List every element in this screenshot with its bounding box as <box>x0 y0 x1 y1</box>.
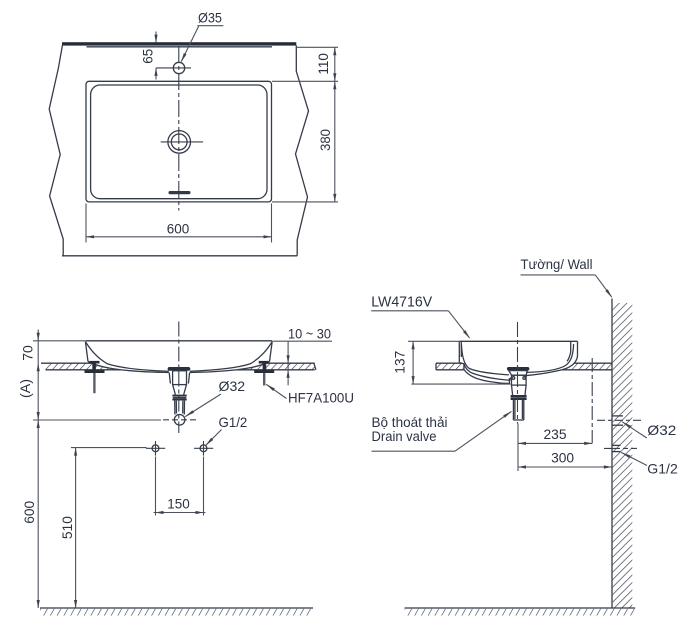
svg-text:Drain valve: Drain valve <box>372 428 437 444</box>
counter bottom line <box>46 369 315 371</box>
basin back rim line <box>87 46 273 48</box>
counter bottom edge <box>62 255 297 257</box>
counter hatch band <box>46 363 315 370</box>
basin right lower sweep curve <box>190 362 270 373</box>
svg-text:G1/2: G1/2 <box>219 414 248 430</box>
faucet hole horizontal centerline <box>156 67 191 69</box>
label Ø35 with leader <box>180 9 224 63</box>
dimension 300 <box>518 450 612 469</box>
dimension 150 <box>154 457 206 516</box>
label G1/2 (wall) with leader <box>621 451 678 476</box>
label Tuong/Wall with leader <box>521 256 614 299</box>
right overflow slot line (side) <box>567 342 571 361</box>
svg-text:137: 137 <box>392 350 408 373</box>
drain taper (side) <box>512 385 527 395</box>
dimension 600 (plan) <box>86 204 272 243</box>
counter left end cap (side) <box>435 363 437 370</box>
basin left upper sweep curve <box>86 342 169 371</box>
label HF7A100U with leader <box>265 383 354 405</box>
basin left end wall <box>85 342 88 362</box>
svg-text:65: 65 <box>140 49 156 64</box>
svg-text:510: 510 <box>59 516 75 539</box>
left fixing bolt pads <box>90 361 100 364</box>
drain cap (front) <box>168 367 191 371</box>
vertical centerline <box>178 46 180 211</box>
dimension 510 <box>59 448 147 608</box>
dimension 600 arrows (front) <box>37 420 40 428</box>
side vertical centerline <box>517 322 519 424</box>
ext line drain level <box>33 419 161 421</box>
drain flange (side) <box>509 371 528 376</box>
wall outlet G1/2 centerline <box>604 447 637 449</box>
extension line basin bottom right <box>272 201 338 203</box>
svg-text:(A): (A) <box>17 379 33 398</box>
label LW4716V with leader <box>371 295 471 340</box>
svg-text:Tường/ Wall: Tường/ Wall <box>521 256 593 272</box>
svg-text:G1/2: G1/2 <box>647 461 678 477</box>
floor hatch (left view) <box>40 609 313 616</box>
floor line (left view) <box>40 607 313 609</box>
drain tailpipe (front) <box>175 401 185 415</box>
counter right corner edge <box>296 45 309 255</box>
counter left break edge <box>49 45 63 255</box>
svg-text:Ø32: Ø32 <box>647 422 676 438</box>
drain nut threads (front) <box>172 395 186 397</box>
drain pipe end circle Ø32 <box>174 415 185 426</box>
drain horizontal centerline <box>161 141 203 143</box>
wall face line <box>611 299 613 609</box>
basin rim line <box>85 340 272 342</box>
svg-text:Ø35: Ø35 <box>198 9 222 25</box>
right interior bowl curve (side) <box>526 344 573 372</box>
counter top line (side) <box>436 362 612 364</box>
svg-text:380: 380 <box>317 129 333 151</box>
wall hatch <box>613 303 633 608</box>
drain inner circle <box>171 134 187 150</box>
counter bottom line (side) <box>436 369 612 371</box>
floor line (side view) <box>405 607 636 609</box>
drain body (front) <box>173 371 187 385</box>
right supply circle <box>194 441 213 456</box>
left inner wall (side) <box>460 342 462 357</box>
counter right end cap <box>314 363 316 370</box>
svg-text:Ø32: Ø32 <box>219 378 246 394</box>
drain body hooks <box>169 373 170 384</box>
basin body mask (side) <box>459 341 579 386</box>
dimension 65 <box>140 32 158 80</box>
left interior bowl curve (side) <box>461 344 509 375</box>
right outer wall (side) <box>525 341 578 377</box>
wall outlet G1/2 hole <box>612 444 621 446</box>
label Ø32 (front) with leader <box>184 378 245 418</box>
label Bo thoat thai / Drain valve with leader <box>372 410 513 451</box>
svg-text:600: 600 <box>167 221 190 237</box>
basin inner rounded rectangle <box>91 85 267 199</box>
drain nut band (side) <box>511 395 527 397</box>
dimension 10 ~ 30 <box>273 326 332 386</box>
extension line top right <box>296 46 338 48</box>
left underside curve (side) <box>464 369 510 383</box>
svg-text:70: 70 <box>20 345 36 361</box>
left dimension stack line <box>37 330 39 609</box>
label G1/2 (front) with leader <box>204 414 247 447</box>
counter front edge (thick) <box>62 42 296 45</box>
left supply circle <box>146 441 165 456</box>
drain body (side) <box>512 375 527 385</box>
ext line rim level <box>33 340 85 342</box>
counter top line <box>41 362 315 364</box>
pipe end horizontal dashes <box>163 419 197 421</box>
counter hatch band (side) <box>436 363 612 370</box>
faucet hole circle Ø35 <box>173 62 184 73</box>
floor hatch (side view) <box>405 609 636 616</box>
basin rim line (side) <box>459 340 577 342</box>
front vertical centerline <box>178 322 180 434</box>
svg-text:150: 150 <box>167 495 190 511</box>
dimension 380 <box>317 81 336 202</box>
left foot edge (side) <box>460 363 464 370</box>
dimension (A) arrows <box>37 412 40 420</box>
basin right upper sweep curve <box>190 342 272 371</box>
dimension 110 <box>315 47 336 81</box>
dimension 137 <box>392 341 511 384</box>
svg-text:HF7A100U: HF7A100U <box>288 390 354 406</box>
svg-text:10 ~ 30: 10 ~ 30 <box>288 326 331 342</box>
drain tailpipe (side) <box>513 400 523 420</box>
svg-text:235: 235 <box>544 426 567 442</box>
basin right end wall <box>270 342 273 362</box>
right bolt rod HF7A100U <box>263 373 265 386</box>
drain center extension line <box>517 424 519 472</box>
drain outer circle <box>168 131 191 154</box>
extension line basin top right <box>272 80 338 82</box>
svg-text:600: 600 <box>21 501 37 524</box>
svg-text:LW4716V: LW4716V <box>371 295 432 311</box>
left shell middle curve (side) <box>464 364 511 381</box>
basin outer rectangle <box>86 81 272 202</box>
right fixing bolt pads <box>259 361 269 364</box>
wall outlet position extension line <box>591 358 593 443</box>
overflow slot <box>169 191 191 194</box>
svg-text:110: 110 <box>315 53 331 75</box>
dimension 235 <box>518 426 592 445</box>
dimension 70 arrows <box>37 333 40 341</box>
svg-text:300: 300 <box>551 450 574 466</box>
drain cap (side) <box>507 367 530 371</box>
label Ø32 (wall) with leader <box>621 421 676 439</box>
drain body holes <box>512 377 515 380</box>
wall outlet Ø32 hole <box>612 415 623 417</box>
basin left lower sweep curve <box>88 362 169 373</box>
wall outlet Ø32 centerline <box>597 419 641 421</box>
left outer wall (side) <box>458 341 460 363</box>
left bolt rod <box>93 373 95 393</box>
basin body mask <box>85 341 272 385</box>
drain taper (front) <box>173 385 187 395</box>
